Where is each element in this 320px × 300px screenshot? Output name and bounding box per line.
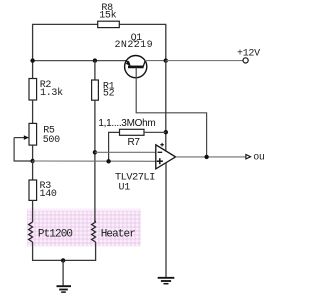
svg-text:TLV27LI: TLV27LI <box>115 171 155 183</box>
node R7 left junction <box>106 159 110 163</box>
svg-text:ou: ou <box>253 153 265 164</box>
terminal output <box>246 155 251 159</box>
wire top-left corner from R8 left down to base rail <box>33 24 98 78</box>
svg-text:140: 140 <box>40 189 57 200</box>
resistor R3 <box>29 161 37 222</box>
wire Q1 base down and over to output node <box>136 68 206 157</box>
node R1 top junction <box>93 58 97 62</box>
svg-text:2N2219: 2N2219 <box>115 40 154 51</box>
svg-text:1,1....3MOhm: 1,1....3MOhm <box>98 118 155 129</box>
node base-left junction <box>30 58 34 62</box>
wire op-amp supply vertical <box>165 61 167 152</box>
svg-text:Heater: Heater <box>101 228 136 240</box>
wire output <box>176 156 246 158</box>
svg-text:+12V: +12V <box>237 48 260 59</box>
op-amp U1 <box>156 143 176 169</box>
wire inverting input <box>95 151 156 153</box>
svg-text:15k: 15k <box>99 9 116 21</box>
wire non-inverting input <box>33 160 156 162</box>
highlight band over Pt1200 and Heater <box>27 209 141 212</box>
svg-text:1.3k: 1.3k <box>40 87 63 99</box>
svg-text:500: 500 <box>43 135 60 146</box>
svg-text:R7: R7 <box>128 137 141 148</box>
wire +12V rail <box>166 60 243 62</box>
node +12V rail junction <box>164 58 168 62</box>
svg-text:52: 52 <box>103 89 115 100</box>
node R5 bottom junction <box>30 159 34 163</box>
ground left <box>57 260 72 292</box>
resistor R2 <box>29 79 37 124</box>
ground right <box>158 278 175 284</box>
resistor R8 <box>98 21 120 27</box>
potentiometer R5 <box>14 123 36 161</box>
wire R8 right to vertical rail <box>119 24 166 60</box>
node minus input junction <box>93 150 97 154</box>
node bottom ground junction <box>61 258 65 262</box>
terminal +12V <box>243 58 248 63</box>
wire op-amp negative supply down <box>165 163 167 277</box>
svg-text:U1: U1 <box>119 183 131 194</box>
transistor Q1 <box>125 56 166 78</box>
resistor R1 with leads <box>92 61 99 222</box>
wire bottom joining Pt1200 and Heater <box>33 242 96 260</box>
svg-text:Pt1200: Pt1200 <box>38 228 73 240</box>
resistor Heater zigzag <box>92 221 96 243</box>
resistor R7 with leads <box>109 129 166 161</box>
node output junction <box>204 155 208 159</box>
node R7 right junction <box>164 130 168 134</box>
wire base rail <box>33 60 127 62</box>
resistor Pt1200 zigzag <box>29 222 33 242</box>
